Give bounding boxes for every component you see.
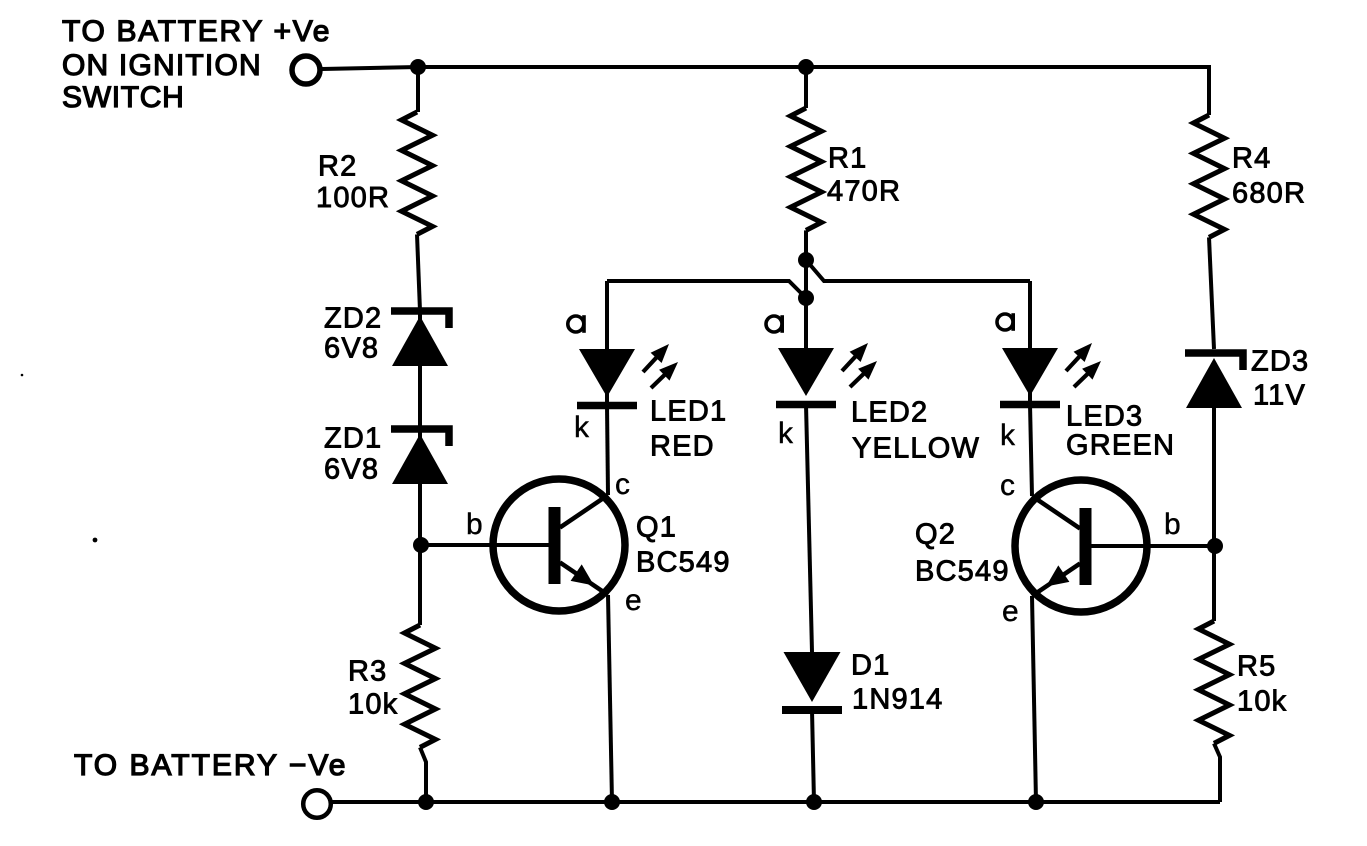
svg-text:k: k (778, 417, 794, 450)
svg-text:k: k (1000, 419, 1016, 452)
svg-text:470R: 470R (827, 176, 901, 208)
svg-text:b: b (1164, 508, 1181, 541)
svg-text:e: e (625, 584, 642, 617)
svg-text:R3: R3 (348, 656, 387, 688)
svg-text:R2: R2 (318, 151, 357, 183)
svg-text:11V: 11V (1253, 380, 1306, 412)
svg-text:6V8: 6V8 (324, 333, 379, 365)
svg-text:Q1: Q1 (636, 512, 677, 544)
svg-text:TO BATTERY +Ve: TO BATTERY +Ve (62, 15, 331, 48)
svg-text:100R: 100R (316, 182, 390, 214)
svg-text:BC549: BC549 (915, 556, 1010, 588)
svg-text:ZD2: ZD2 (324, 303, 382, 335)
svg-text:Q2: Q2 (915, 519, 956, 551)
svg-text:LED3: LED3 (1066, 401, 1143, 433)
svg-text:680R: 680R (1232, 178, 1306, 210)
svg-text:D1: D1 (851, 650, 890, 682)
svg-text:ZD1: ZD1 (324, 423, 382, 455)
svg-text:RED: RED (650, 431, 715, 463)
svg-text:LED2: LED2 (851, 397, 928, 429)
svg-text:b: b (466, 508, 483, 541)
svg-text:e: e (1002, 595, 1019, 628)
svg-text:k: k (574, 411, 590, 444)
svg-text:ZD3: ZD3 (1251, 346, 1309, 378)
svg-text:BC549: BC549 (636, 547, 731, 579)
svg-text:6V8: 6V8 (324, 454, 379, 486)
svg-text:R5: R5 (1237, 651, 1276, 683)
svg-text:GREEN: GREEN (1066, 430, 1175, 462)
svg-text:10k: 10k (348, 689, 398, 721)
svg-text:R1: R1 (828, 143, 867, 175)
svg-text:SWITCH: SWITCH (62, 81, 185, 114)
svg-text:c: c (1000, 469, 1015, 502)
svg-text:YELLOW: YELLOW (852, 433, 980, 465)
svg-text:c: c (615, 468, 630, 501)
svg-text:R4: R4 (1232, 143, 1271, 175)
svg-text:10k: 10k (1237, 686, 1287, 718)
svg-text:1N914: 1N914 (852, 684, 943, 716)
svg-text:ON IGNITION: ON IGNITION (62, 49, 262, 82)
svg-text:TO BATTERY −Ve: TO BATTERY −Ve (74, 749, 347, 782)
svg-text:LED1: LED1 (650, 396, 727, 428)
